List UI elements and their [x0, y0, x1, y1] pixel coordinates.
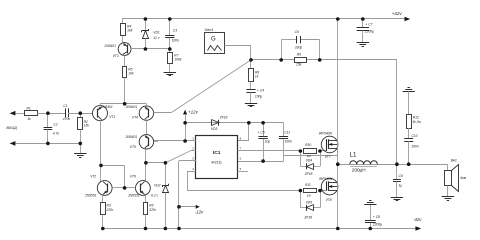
svg-text:15k: 15k — [84, 124, 90, 128]
svg-text:100n: 100n — [411, 145, 419, 149]
svg-text:C1: C1 — [63, 104, 67, 108]
svg-text:1µ: 1µ — [399, 184, 403, 188]
svg-text:+ C5: + C5 — [258, 130, 265, 134]
svg-text:+12v: +12v — [188, 110, 199, 115]
svg-text:2200µ: 2200µ — [372, 223, 382, 227]
svg-text:VT1: VT1 — [109, 115, 115, 119]
svg-text:VD4: VD4 — [306, 158, 313, 162]
svg-text:VT7: VT7 — [325, 155, 331, 159]
svg-text:220r: 220r — [106, 208, 115, 212]
svg-text:12 v: 12 v — [153, 36, 160, 40]
svg-text:R12: R12 — [413, 116, 419, 120]
svg-text:+42v: +42v — [392, 11, 403, 16]
svg-text:6.2 v: 6.2 v — [151, 194, 158, 198]
svg-text:VD3: VD3 — [211, 127, 218, 131]
svg-text:2N5551: 2N5551 — [84, 193, 97, 197]
svg-text:2N5401: 2N5401 — [100, 105, 113, 109]
svg-text:VT4: VT4 — [132, 116, 138, 120]
svg-text:VT3: VT3 — [113, 54, 119, 58]
svg-text:IRF540N: IRF540N — [319, 177, 333, 181]
svg-text:10k: 10k — [127, 28, 133, 32]
svg-text:VT2: VT2 — [90, 175, 96, 179]
svg-text:100k: 100k — [174, 57, 182, 61]
svg-text:IRF540N: IRF540N — [319, 132, 333, 136]
svg-text:220r: 220r — [148, 208, 157, 212]
svg-text:8r 2w: 8r 2w — [413, 120, 422, 124]
svg-text:10k: 10k — [128, 72, 134, 76]
svg-text:VT8: VT8 — [326, 198, 332, 202]
svg-text:VD2: VD2 — [154, 183, 161, 187]
svg-text:+ C7: + C7 — [365, 22, 372, 26]
svg-text:VD1: VD1 — [153, 31, 160, 35]
svg-text:2N5401: 2N5401 — [125, 105, 138, 109]
svg-text:R10: R10 — [305, 143, 311, 147]
svg-text:2N5401: 2N5401 — [103, 44, 116, 48]
svg-text:C2: C2 — [53, 122, 57, 126]
svg-text:ZF18: ZF18 — [219, 115, 228, 119]
svg-text:ВХОД: ВХОД — [6, 126, 17, 130]
svg-text:C11: C11 — [284, 130, 290, 134]
svg-text:Gen1: Gen1 — [205, 28, 214, 32]
svg-text:4.7n: 4.7n — [53, 132, 60, 136]
svg-text:VT6: VT6 — [130, 175, 136, 179]
svg-text:-42v: -42v — [413, 217, 422, 222]
svg-text:ZF18: ZF18 — [304, 172, 313, 176]
svg-text:VT5: VT5 — [130, 145, 136, 149]
svg-text:1k: 1k — [27, 117, 31, 121]
svg-text:-12v: -12v — [195, 210, 204, 215]
svg-text:C9: C9 — [399, 174, 403, 178]
svg-text:100n: 100n — [285, 140, 293, 144]
svg-text:C3: C3 — [173, 28, 177, 32]
svg-text:L1: L1 — [350, 152, 357, 159]
svg-text:G: G — [211, 37, 216, 43]
svg-text:100µ: 100µ — [255, 95, 263, 99]
svg-text:C10: C10 — [411, 134, 417, 138]
svg-text:1k: 1k — [255, 74, 259, 78]
svg-text:200µH: 200µH — [352, 168, 366, 173]
svg-text:+ C4: + C4 — [257, 88, 264, 92]
svg-text:R1: R1 — [27, 107, 31, 111]
svg-text:100n: 100n — [172, 39, 180, 43]
svg-text:IR2111: IR2111 — [211, 161, 222, 165]
svg-text:VD5: VD5 — [306, 200, 313, 204]
svg-text:R9: R9 — [297, 52, 301, 56]
svg-text:10µ: 10µ — [265, 139, 271, 143]
svg-text:IC1: IC1 — [213, 150, 221, 156]
svg-text:C6: C6 — [295, 30, 299, 34]
svg-text:15k: 15k — [296, 62, 302, 66]
svg-text:4ом: 4ом — [460, 176, 467, 180]
svg-text:R11: R11 — [305, 183, 311, 187]
svg-text:+ C8: + C8 — [373, 215, 380, 219]
svg-text:2200µ: 2200µ — [364, 30, 374, 34]
svg-text:2N5401: 2N5401 — [125, 135, 138, 139]
svg-text:BA1: BA1 — [451, 159, 457, 163]
svg-text:470n: 470n — [63, 117, 71, 121]
svg-text:2N5551: 2N5551 — [127, 193, 140, 197]
svg-text:330p: 330p — [295, 45, 303, 49]
svg-text:ZF18: ZF18 — [303, 216, 312, 220]
